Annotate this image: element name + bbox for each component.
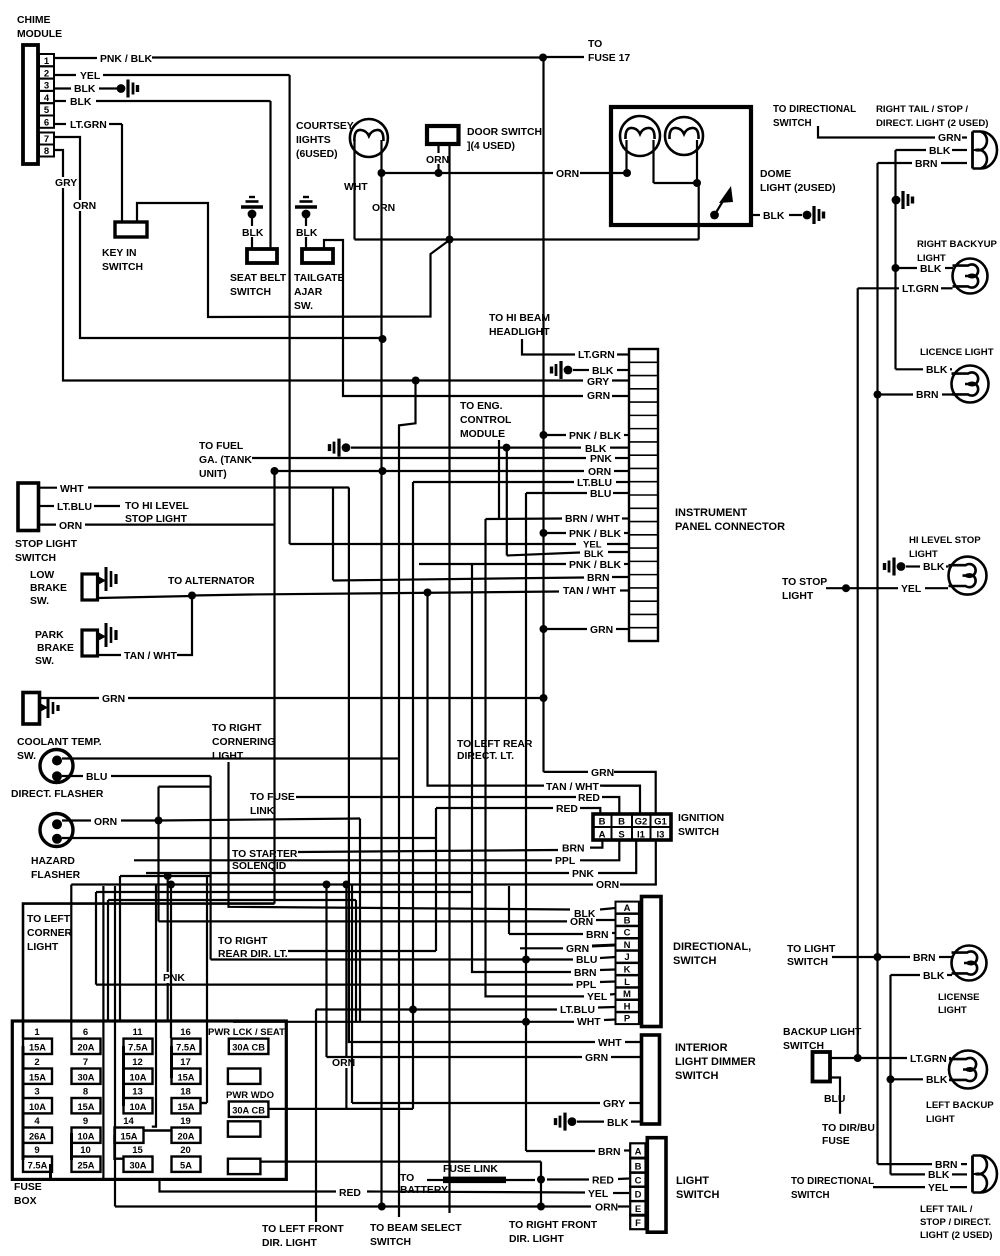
svg-text:IGNITION: IGNITION xyxy=(678,813,724,824)
svg-text:L: L xyxy=(624,977,630,988)
wire pin2 YEL xyxy=(54,74,76,76)
label ORN xyxy=(72,200,95,211)
feeder x207 fuse18 xyxy=(206,876,208,1103)
svg-text:TO RIGHT FRONT: TO RIGHT FRONT xyxy=(509,1220,598,1231)
ground hi level stop xyxy=(897,562,906,571)
BLK bus x506 ends at BLK-3 row xyxy=(506,448,508,556)
svg-text:INTERIOR: INTERIOR xyxy=(675,1042,728,1054)
wire right backup BLK xyxy=(892,264,900,272)
wire WHT row xyxy=(355,238,699,240)
wire BRN/WHT instrument xyxy=(498,440,500,519)
svg-text:7.5A: 7.5A xyxy=(128,1042,148,1052)
blank breaker box 3 xyxy=(228,1159,261,1174)
blank breaker box xyxy=(228,1069,261,1084)
svg-text:5A: 5A xyxy=(180,1160,192,1170)
svg-text:BLK: BLK xyxy=(74,84,96,95)
wire ORN row light switch xyxy=(115,1205,591,1207)
light switch bracket xyxy=(647,1138,666,1233)
svg-text:LT.GRN: LT.GRN xyxy=(910,1054,947,1065)
wire hazard bottom row xyxy=(62,837,436,839)
fuse 18 wire from x207 xyxy=(201,1102,208,1104)
svg-text:BRN: BRN xyxy=(587,573,610,584)
dome wire to WHT row xyxy=(698,183,700,240)
svg-text:ORN: ORN xyxy=(588,467,611,478)
wire BRN directional C xyxy=(508,886,510,934)
wire courtesy ORN lead xyxy=(380,140,382,173)
svg-text:PNK / BLK: PNK / BLK xyxy=(569,560,621,571)
door switch box xyxy=(427,126,459,144)
svg-text:BLK: BLK xyxy=(926,1075,948,1086)
svg-text:26A: 26A xyxy=(29,1131,46,1141)
svg-text:BRN: BRN xyxy=(913,953,936,964)
svg-text:SWITCH: SWITCH xyxy=(773,118,812,129)
svg-text:CORNERING: CORNERING xyxy=(212,737,276,748)
wire ORN directional xyxy=(159,920,568,922)
svg-text:E: E xyxy=(635,1204,641,1215)
svg-text:ORN: ORN xyxy=(94,817,117,828)
svg-text:18: 18 xyxy=(180,1087,191,1098)
svg-text:UNIT): UNIT) xyxy=(199,469,227,480)
svg-text:BLU: BLU xyxy=(824,1094,845,1105)
wire TAN/WHT row to instrument connector xyxy=(192,595,250,596)
svg-text:ORN: ORN xyxy=(372,203,395,214)
svg-text:H: H xyxy=(624,1001,631,1012)
svg-text:BRN: BRN xyxy=(598,1147,621,1158)
wire LT.GRN left backup xyxy=(830,1057,855,1059)
left rear bus x526 xyxy=(525,493,527,1151)
svg-text:BLK: BLK xyxy=(920,264,942,275)
ignition switch connector xyxy=(593,814,671,840)
svg-text:LT.GRN: LT.GRN xyxy=(70,120,107,131)
svg-text:SWITCH: SWITCH xyxy=(102,262,143,273)
svg-text:14: 14 xyxy=(123,1116,134,1127)
svg-text:LIGHT: LIGHT xyxy=(676,1175,709,1187)
svg-text:TAILGATE: TAILGATE xyxy=(294,273,344,284)
vertical bus x436 xyxy=(435,808,437,951)
svg-text:TO STOP: TO STOP xyxy=(782,577,827,588)
svg-text:LIGHT: LIGHT xyxy=(27,942,59,953)
wire PPL ignition xyxy=(134,859,552,861)
wire BLK left backup xyxy=(887,1075,895,1083)
svg-text:LICENCE LIGHT: LICENCE LIGHT xyxy=(920,347,994,358)
svg-text:A: A xyxy=(624,903,631,914)
wire YEL row to instrument connector xyxy=(290,543,576,545)
svg-text:WHT: WHT xyxy=(577,1017,601,1028)
svg-text:PNK: PNK xyxy=(572,869,594,880)
svg-text:C: C xyxy=(635,1175,642,1186)
svg-text:FUSE LINK: FUSE LINK xyxy=(443,1164,498,1175)
svg-text:B: B xyxy=(635,1161,642,1172)
wire seat belt BLK lead xyxy=(251,218,253,249)
svg-text:SWITCH: SWITCH xyxy=(678,827,719,838)
svg-text:LT.BLU: LT.BLU xyxy=(560,1005,595,1016)
left backup lamp xyxy=(949,1051,987,1089)
svg-text:YEL: YEL xyxy=(588,1189,609,1200)
wire BLU backup switch xyxy=(830,1078,840,1114)
wire GRN right tail xyxy=(818,126,935,138)
svg-text:BRN: BRN xyxy=(915,159,938,170)
svg-text:BRN: BRN xyxy=(586,930,609,941)
wire pin8 GRY row to instrument connector xyxy=(54,150,583,381)
wire door switch right lead (TO RIGHT FRONT DIR. LIGHT) xyxy=(448,144,450,1213)
svg-text:A: A xyxy=(635,1146,642,1157)
dome switch xyxy=(710,211,719,220)
svg-text:GRY: GRY xyxy=(55,178,77,189)
svg-text:15A: 15A xyxy=(29,1042,46,1052)
PNK/BLK bus x543 (fuse 17) xyxy=(542,58,544,772)
svg-text:LIGHT DIMMER: LIGHT DIMMER xyxy=(675,1056,756,1068)
svg-text:6: 6 xyxy=(83,1027,88,1038)
svg-text:LIGHT: LIGHT xyxy=(782,591,814,602)
wire hazard ORN xyxy=(62,819,91,821)
wire YEL hi level stop xyxy=(826,587,898,589)
wire key-in WHT xyxy=(137,203,450,317)
svg-text:PPL: PPL xyxy=(576,980,597,991)
svg-text:COOLANT TEMP.: COOLANT TEMP. xyxy=(17,737,102,748)
svg-text:BOX: BOX xyxy=(14,1196,37,1207)
fuse box border xyxy=(12,1021,286,1179)
svg-text:TO HI LEVEL: TO HI LEVEL xyxy=(125,501,190,512)
svg-text:RIGHT TAIL / STOP /: RIGHT TAIL / STOP / xyxy=(876,104,968,115)
svg-text:TO DIR/BU: TO DIR/BU xyxy=(822,1123,875,1134)
svg-text:GRY: GRY xyxy=(603,1099,625,1110)
wire GRN bottom instrument xyxy=(540,625,548,633)
ground dome light xyxy=(803,211,812,220)
junction dots ORN row xyxy=(323,881,331,889)
ground on BLK bus xyxy=(892,196,901,205)
svg-text:PPL: PPL xyxy=(555,856,576,867)
wire pin3 BLK to ground xyxy=(54,87,71,89)
svg-text:TAN / WHT: TAN / WHT xyxy=(124,651,178,662)
svg-text:LIGHT: LIGHT xyxy=(909,549,938,560)
svg-text:BLK: BLK xyxy=(584,549,604,560)
svg-text:LIGHT (2USED): LIGHT (2USED) xyxy=(760,183,836,194)
svg-text:SEAT BELT: SEAT BELT xyxy=(230,273,287,284)
svg-text:TO: TO xyxy=(588,39,602,50)
label PNK xyxy=(162,972,184,983)
svg-text:PARK: PARK xyxy=(35,630,64,641)
svg-text:AJAR: AJAR xyxy=(294,287,323,298)
svg-text:PNK / BLK: PNK / BLK xyxy=(569,529,621,540)
BRN bus right side xyxy=(876,163,878,1164)
svg-text:BACKUP LIGHT: BACKUP LIGHT xyxy=(783,1027,862,1038)
svg-text:BLK: BLK xyxy=(607,1118,629,1129)
svg-text:ORN: ORN xyxy=(426,155,449,166)
svg-text:BRN / WHT: BRN / WHT xyxy=(565,514,620,525)
svg-text:15A: 15A xyxy=(177,1102,194,1112)
junction dot hazard ORN xyxy=(155,817,163,825)
svg-text:D: D xyxy=(635,1190,642,1201)
wire starter solenoid to ignition A xyxy=(298,850,558,852)
PNK bus x171 xyxy=(170,885,172,1039)
svg-text:RIGHT BACKYUP: RIGHT BACKYUP xyxy=(917,239,998,250)
svg-text:STOP LIGHT: STOP LIGHT xyxy=(15,539,78,550)
wire BLK 3 instrument xyxy=(507,553,580,556)
svg-text:PNK: PNK xyxy=(590,454,612,465)
licence lamp xyxy=(952,366,989,403)
svg-text:TO: TO xyxy=(400,1173,414,1184)
fuse link vertical xyxy=(540,1162,542,1207)
feeder to fuse6 x71 xyxy=(70,885,72,1039)
feeder x120 xyxy=(119,876,121,1021)
svg-text:ORN: ORN xyxy=(59,521,82,532)
svg-text:15A: 15A xyxy=(77,1102,94,1112)
svg-text:BLU: BLU xyxy=(590,489,611,500)
wire BLU instrument xyxy=(526,492,587,494)
svg-text:IIGHTS: IIGHTS xyxy=(296,135,331,146)
svg-text:YEL: YEL xyxy=(80,71,101,82)
svg-text:S: S xyxy=(618,830,624,841)
svg-text:BRN: BRN xyxy=(562,844,585,855)
svg-text:CONTROL: CONTROL xyxy=(460,415,512,426)
stop light switch box xyxy=(18,483,39,531)
svg-text:MODULE: MODULE xyxy=(17,29,62,40)
svg-text:B: B xyxy=(599,817,606,828)
svg-text:GA. (TANK: GA. (TANK xyxy=(199,455,252,466)
wire RED light switch xyxy=(547,1178,589,1180)
svg-text:LT.BLU: LT.BLU xyxy=(57,502,92,513)
svg-text:WHT: WHT xyxy=(598,1038,622,1049)
svg-text:SW.: SW. xyxy=(17,751,36,762)
svg-text:GRN: GRN xyxy=(590,625,613,636)
svg-text:30A: 30A xyxy=(77,1072,94,1082)
svg-text:FUSE: FUSE xyxy=(14,1182,42,1193)
wire pin6 LT.GRN to key-in switch xyxy=(54,123,66,125)
svg-text:BLK: BLK xyxy=(296,228,318,239)
wire BRN license 2 xyxy=(832,956,875,958)
right backup lamp xyxy=(953,259,988,294)
svg-text:GRN: GRN xyxy=(566,944,589,955)
wire stop LT.BLU xyxy=(39,505,55,507)
wire pin1 PNK/BLK to fuse 17 xyxy=(54,57,97,59)
svg-text:G2: G2 xyxy=(635,817,648,828)
wire stop ORN xyxy=(39,523,57,525)
svg-text:B: B xyxy=(624,915,631,926)
svg-text:FUSE 17: FUSE 17 xyxy=(588,53,630,64)
svg-text:HI LEVEL STOP: HI LEVEL STOP xyxy=(909,535,981,546)
wire BRN left tail xyxy=(878,1163,933,1165)
svg-text:7.5A: 7.5A xyxy=(28,1160,48,1170)
fuse interior link col2 xyxy=(70,1133,73,1160)
svg-text:INSTRUMENT: INSTRUMENT xyxy=(675,507,747,519)
svg-text:G1: G1 xyxy=(654,817,667,828)
fuse interior link col4 xyxy=(170,1046,173,1078)
feeder ORN to PWR WDO x346 xyxy=(345,885,347,1109)
svg-text:GRN: GRN xyxy=(587,391,610,402)
svg-text:YEL: YEL xyxy=(928,1183,949,1194)
wire BRN light switch xyxy=(526,1150,595,1152)
svg-text:RED: RED xyxy=(556,804,578,815)
svg-text:BLU: BLU xyxy=(576,955,597,966)
dome lamp leads xyxy=(625,140,627,173)
directional switch bracket xyxy=(642,897,662,1027)
svg-text:16: 16 xyxy=(180,1027,191,1038)
svg-text:30A CB: 30A CB xyxy=(232,1105,265,1115)
svg-text:12: 12 xyxy=(132,1057,143,1068)
svg-text:SWITCH: SWITCH xyxy=(370,1237,411,1248)
svg-text:DIR. LIGHT: DIR. LIGHT xyxy=(262,1238,317,1249)
svg-text:LEFT TAIL /: LEFT TAIL / xyxy=(920,1204,973,1215)
svg-text:TO FUSE: TO FUSE xyxy=(250,792,295,803)
svg-text:4: 4 xyxy=(34,1116,40,1127)
svg-text:COURTSEY: COURTSEY xyxy=(296,121,354,132)
hazard flasher xyxy=(40,814,73,847)
svg-text:TO DIRECTIONAL: TO DIRECTIONAL xyxy=(773,104,856,115)
svg-text:6: 6 xyxy=(44,118,49,129)
wire GRN ignition xyxy=(544,771,589,773)
wire PNK/BLK 3 instrument xyxy=(419,563,566,565)
wire BLU directional J xyxy=(211,958,573,960)
svg-text:BRAKE: BRAKE xyxy=(30,583,67,594)
BLU bus via flasher xyxy=(210,776,212,960)
wire ORN row to dome light xyxy=(382,172,554,174)
svg-text:SW.: SW. xyxy=(294,301,313,312)
svg-text:30A CB: 30A CB xyxy=(232,1042,265,1052)
svg-text:30A: 30A xyxy=(129,1160,146,1170)
svg-text:SWITCH: SWITCH xyxy=(230,287,271,298)
svg-text:A: A xyxy=(599,830,606,841)
svg-text:BLK: BLK xyxy=(926,365,948,376)
svg-text:20: 20 xyxy=(180,1145,191,1156)
svg-text:TO RIGHT: TO RIGHT xyxy=(212,723,262,734)
svg-text:15A: 15A xyxy=(120,1131,137,1141)
svg-text:PANEL CONNECTOR: PANEL CONNECTOR xyxy=(675,521,785,533)
svg-text:BATTERY: BATTERY xyxy=(400,1185,448,1196)
svg-text:LIGHT: LIGHT xyxy=(212,751,244,762)
svg-text:8: 8 xyxy=(44,146,49,157)
svg-text:BRN: BRN xyxy=(574,968,597,979)
svg-text:SWITCH: SWITCH xyxy=(675,1070,718,1082)
svg-text:10A: 10A xyxy=(29,1102,46,1112)
svg-text:BLK: BLK xyxy=(923,971,945,982)
BLK bus right side xyxy=(894,150,896,369)
wire right rear dir xyxy=(288,950,436,952)
svg-text:RED: RED xyxy=(578,793,600,804)
LT.BLU bus x413 to PWR WDO xyxy=(412,482,414,1109)
wire door switch ORN lead xyxy=(437,144,439,173)
wire LT.BLU instrument xyxy=(413,481,574,483)
svg-text:HAZARD: HAZARD xyxy=(31,856,75,867)
wire BRN right tail xyxy=(878,162,913,164)
svg-text:YEL: YEL xyxy=(901,584,922,595)
svg-text:BRAKE: BRAKE xyxy=(37,643,74,654)
PWR WDO wire xyxy=(268,1108,413,1110)
left tail light symbol xyxy=(971,1156,974,1193)
svg-text:REAR DIR. LT.: REAR DIR. LT. xyxy=(218,949,288,960)
wire tailgate to GRN row xyxy=(324,240,583,396)
wire direct flasher BLU xyxy=(62,775,83,777)
dome lamp 1 xyxy=(620,116,660,156)
svg-text:13: 13 xyxy=(132,1087,143,1098)
svg-text:(6USED): (6USED) xyxy=(296,149,338,160)
svg-text:BRN: BRN xyxy=(916,390,939,401)
svg-text:DOOR SWITCH: DOOR SWITCH xyxy=(467,127,542,138)
svg-text:N: N xyxy=(624,940,631,951)
svg-text:LICENSE: LICENSE xyxy=(938,992,980,1003)
directional switch cells xyxy=(616,902,639,914)
chime module pin boxes 1-8 xyxy=(39,54,54,66)
wire WHT directional P xyxy=(233,1021,574,1023)
svg-text:LT.BLU: LT.BLU xyxy=(577,478,612,489)
svg-text:15A: 15A xyxy=(29,1072,46,1082)
svg-text:ORN: ORN xyxy=(596,880,619,891)
wire BRN instrument xyxy=(333,578,584,581)
svg-text:DIRECT. LIGHT (2 USED): DIRECT. LIGHT (2 USED) xyxy=(876,118,988,129)
wire YEL vertical bus xyxy=(289,75,291,544)
svg-text:TO LIGHT: TO LIGHT xyxy=(787,944,836,955)
wire direct flasher top (to right cornering) xyxy=(62,757,399,759)
wire GRY dimmer xyxy=(352,1102,600,1104)
svg-text:BLK: BLK xyxy=(763,211,785,222)
svg-text:CHIME: CHIME xyxy=(17,15,51,26)
svg-text:FLASHER: FLASHER xyxy=(31,870,81,881)
svg-text:GRN: GRN xyxy=(591,768,614,779)
svg-text:15A: 15A xyxy=(177,1072,194,1082)
license lamp 2 xyxy=(952,946,987,981)
svg-text:BLK: BLK xyxy=(592,366,614,377)
fuse interior link col1 xyxy=(22,1046,25,1160)
wire courtesy WHT lead xyxy=(353,140,355,240)
svg-text:TO LEFT REAR: TO LEFT REAR xyxy=(457,739,533,750)
svg-text:17: 17 xyxy=(180,1057,191,1068)
ground above tailgate switch xyxy=(302,210,311,219)
svg-text:1: 1 xyxy=(34,1027,40,1038)
bus from GRY dot jog to x399 down to beam select xyxy=(399,381,416,1217)
svg-text:GRN: GRN xyxy=(102,694,125,705)
svg-text:B: B xyxy=(618,817,625,828)
seat belt switch box xyxy=(247,249,277,263)
svg-text:TO RIGHT: TO RIGHT xyxy=(218,936,268,947)
svg-text:11: 11 xyxy=(132,1027,143,1038)
LT.GRN bus right side xyxy=(857,288,859,1058)
svg-text:DIRECT. FLASHER: DIRECT. FLASHER xyxy=(11,789,104,800)
svg-text:TO HI BEAM: TO HI BEAM xyxy=(489,313,550,324)
svg-text:7: 7 xyxy=(83,1057,88,1068)
svg-text:I3: I3 xyxy=(657,830,665,841)
wire ORN row to instrument connector xyxy=(275,470,585,472)
svg-text:TO LEFT: TO LEFT xyxy=(27,914,71,925)
wire licence BRN xyxy=(874,391,882,399)
svg-text:SW.: SW. xyxy=(30,596,49,607)
svg-text:LT.GRN: LT.GRN xyxy=(578,350,615,361)
svg-text:K: K xyxy=(624,965,631,976)
svg-text:10A: 10A xyxy=(129,1102,146,1112)
svg-text:LIGHT: LIGHT xyxy=(917,253,946,264)
wire low brake to alternator row xyxy=(98,596,193,598)
interior bus x103 xyxy=(102,886,104,1179)
junction dot door ORN xyxy=(435,169,443,177)
svg-text:BLK: BLK xyxy=(923,562,945,573)
feeder to GRN dimmer x326 xyxy=(325,885,327,1058)
wire ORN ignition row xyxy=(71,883,593,885)
wire PNK ignition xyxy=(146,872,569,874)
svg-text:TO FUEL: TO FUEL xyxy=(199,441,244,452)
junction dot at fuse 17 feed xyxy=(539,54,547,62)
junction dot ORN bus / ORN row xyxy=(379,467,387,475)
svg-text:GRN: GRN xyxy=(585,1053,608,1064)
dome lamp 2 xyxy=(665,117,703,155)
svg-text:LEFT BACKUP: LEFT BACKUP xyxy=(926,1100,994,1111)
svg-text:P: P xyxy=(624,1014,631,1025)
svg-text:PNK / BLK: PNK / BLK xyxy=(569,431,621,442)
svg-text:BLK: BLK xyxy=(70,97,92,108)
fuse interior link col3 xyxy=(122,1046,125,1106)
svg-text:7.5A: 7.5A xyxy=(176,1042,196,1052)
ground + wire BLK instrument xyxy=(564,366,573,375)
svg-text:HEADLIGHT: HEADLIGHT xyxy=(489,327,550,338)
wire row y876 xyxy=(120,875,211,877)
svg-text:BLK: BLK xyxy=(928,1170,950,1181)
